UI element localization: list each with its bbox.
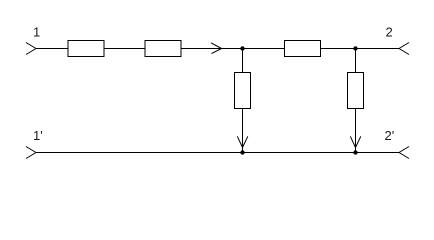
resistor R4 (shunt, left vertical box)	[235, 73, 251, 109]
port 1' terminal arrow	[26, 147, 36, 159]
wire port1 to R1	[36, 48, 68, 50]
svg-text:1': 1'	[33, 128, 43, 143]
svg-text:2': 2'	[385, 128, 395, 143]
node B junction dot	[353, 46, 357, 50]
wire R3 to node B	[321, 48, 356, 50]
wire node B down to R5	[355, 49, 357, 73]
wire R4 down to bottom rail	[242, 109, 244, 153]
node A junction dot	[240, 46, 244, 50]
wire node A down to R4	[242, 49, 244, 73]
current arrow on top wire	[211, 43, 222, 54]
svg-text:2: 2	[386, 25, 393, 40]
wire R5 down to bottom rail	[355, 109, 357, 153]
junction dot node A' on bottom rail	[240, 150, 244, 154]
resistor R1 (series, top-left box)	[68, 41, 104, 57]
resistor R3 (series, top-right box)	[285, 41, 321, 57]
junction dot node B' on bottom rail	[353, 150, 357, 154]
svg-text:1: 1	[33, 25, 40, 40]
wire R1 to R2	[104, 48, 145, 50]
resistor R5 (shunt, right vertical box)	[348, 73, 364, 109]
current arrow down on R5 branch	[350, 136, 361, 147]
wire node B to port 2	[356, 48, 400, 50]
port 1 terminal arrow	[26, 43, 36, 55]
port 2' terminal arrow	[399, 147, 409, 159]
current arrow down on R4 branch	[237, 136, 248, 147]
wire R2 to node A with current direction arrow	[181, 48, 243, 50]
resistor R2 (series, second box)	[145, 41, 181, 57]
bottom rail wire 1' to 2'	[36, 152, 399, 154]
wire node A to R3	[243, 48, 285, 50]
port 2 terminal arrow	[399, 43, 409, 55]
